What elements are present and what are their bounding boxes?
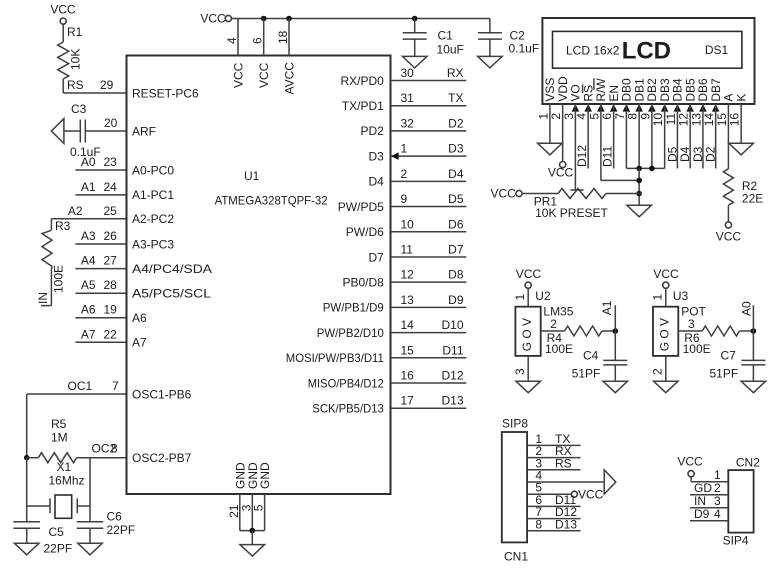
- svg-text:PW/PB1/D9: PW/PB1/D9: [323, 301, 384, 315]
- wire CN2 pin 2 net GD: [690, 481, 728, 495]
- wire net D10 pin 14: [317, 318, 467, 340]
- svg-text:28: 28: [104, 278, 118, 292]
- wire U3 pin 2: [650, 356, 665, 381]
- svg-text:2: 2: [714, 481, 721, 495]
- crystal X1 16Mhz: [49, 460, 91, 518]
- svg-text:8: 8: [111, 442, 118, 456]
- svg-text:CN2: CN2: [736, 455, 760, 469]
- svg-text:D11: D11: [442, 343, 463, 357]
- wire net TX pin 31: [342, 91, 467, 113]
- svg-text:3: 3: [513, 368, 527, 375]
- svg-text:10: 10: [401, 217, 415, 231]
- power VCC: [516, 267, 542, 288]
- capacitor C3: [70, 102, 101, 159]
- svg-text:D3: D3: [368, 149, 384, 163]
- node A1: [600, 300, 618, 334]
- svg-text:C4: C4: [583, 349, 599, 363]
- svg-text:CN1: CN1: [504, 550, 528, 564]
- ground: [14, 543, 39, 555]
- wire net A0 pin 23: [75, 155, 126, 170]
- svg-text:VCC: VCC: [716, 230, 742, 244]
- svg-text:RESET-PC6: RESET-PC6: [132, 86, 199, 100]
- svg-text:22E: 22E: [742, 192, 763, 206]
- resistor R3: [42, 219, 71, 293]
- wire net D12 pin 16: [308, 369, 467, 391]
- svg-text:C2: C2: [510, 29, 526, 43]
- sensor U3 POT body: [650, 288, 706, 356]
- capacitor C6: [77, 510, 135, 544]
- svg-text:1: 1: [513, 294, 527, 301]
- LCD module DS1 body: [542, 18, 754, 104]
- svg-text:R3: R3: [55, 219, 71, 233]
- svg-text:8: 8: [535, 517, 542, 531]
- wire GND pins 21 3 5: [227, 462, 272, 545]
- svg-text:A1: A1: [81, 180, 96, 194]
- svg-text:C5: C5: [49, 525, 65, 539]
- svg-text:22PF: 22PF: [44, 542, 73, 556]
- resistor R2: [723, 169, 763, 222]
- svg-text:11: 11: [401, 242, 414, 256]
- svg-text:D11: D11: [601, 146, 615, 167]
- power VCC: [491, 186, 523, 200]
- wire net D5 pin 11: [665, 104, 679, 168]
- wire CN2 pin 4 net D9: [690, 507, 728, 521]
- svg-text:D12: D12: [441, 369, 463, 383]
- node junction: [24, 455, 30, 461]
- svg-text:D9: D9: [448, 293, 464, 307]
- svg-text:16: 16: [401, 369, 415, 383]
- svg-text:26: 26: [104, 229, 118, 243]
- wire net A1 pin 24: [75, 180, 126, 195]
- svg-text:25: 25: [104, 204, 118, 218]
- svg-text:1: 1: [650, 294, 664, 301]
- wire CN1 pin 8 net D13: [527, 517, 580, 531]
- wire CN2 pin 1 VCC: [691, 468, 728, 482]
- connector CN2 SIP4 body: [723, 455, 761, 547]
- wire net D5 pin 9: [338, 192, 467, 214]
- svg-text:3: 3: [714, 494, 721, 508]
- svg-text:R1: R1: [67, 25, 83, 39]
- LCD pin arrows: [572, 104, 720, 112]
- svg-text:16Mhz: 16Mhz: [49, 474, 85, 488]
- svg-text:LCD: LCD: [622, 38, 671, 65]
- svg-text:A0: A0: [81, 155, 96, 169]
- svg-text:22: 22: [104, 327, 118, 341]
- svg-text:IN: IN: [694, 494, 706, 508]
- wire net D6 pin 10: [346, 217, 467, 239]
- svg-text:ATMEGA328TQPF-32: ATMEGA328TQPF-32: [215, 194, 328, 208]
- svg-text:10K PRESET: 10K PRESET: [535, 206, 608, 220]
- svg-text:22PF: 22PF: [107, 523, 136, 537]
- svg-text:14: 14: [401, 318, 415, 332]
- wire net D4 pin 12: [678, 104, 692, 168]
- svg-text:10K: 10K: [69, 49, 83, 70]
- ground: [240, 545, 264, 557]
- svg-text:RX: RX: [447, 66, 464, 80]
- wire CN1 pin 5 VCC: [527, 481, 604, 502]
- svg-text:GD: GD: [694, 481, 712, 495]
- wire ground bus vertical: [636, 168, 642, 205]
- ground: [538, 143, 563, 155]
- svg-text:OSC2-PB7: OSC2-PB7: [132, 451, 192, 465]
- ground: [516, 381, 541, 393]
- power VCC rail: [200, 12, 490, 26]
- wire pin 18 AVCC: [276, 16, 297, 95]
- svg-text:32: 32: [401, 116, 415, 130]
- svg-text:PW/D6: PW/D6: [346, 225, 384, 239]
- svg-text:OSC1-PB6: OSC1-PB6: [132, 387, 192, 401]
- svg-text:RS: RS: [555, 456, 572, 470]
- wire net A3 pin 26: [75, 229, 126, 244]
- left open-arrow terminal: [51, 119, 64, 144]
- wire U2 pin 3: [513, 356, 528, 381]
- svg-text:LCD 16x2: LCD 16x2: [566, 44, 620, 58]
- svg-text:17: 17: [401, 394, 415, 408]
- svg-text:D6: D6: [448, 217, 464, 231]
- svg-text:A1-PC1: A1-PC1: [132, 188, 174, 202]
- svg-text:A6: A6: [132, 311, 147, 325]
- svg-text:D4: D4: [368, 175, 384, 189]
- wire net A5 pin 28: [75, 278, 126, 293]
- node IN: [36, 270, 51, 306]
- svg-text:PD2: PD2: [360, 124, 384, 138]
- svg-text:51PF: 51PF: [710, 367, 739, 381]
- svg-text:MOSI/PW/PB3/D11: MOSI/PW/PB3/D11: [286, 351, 384, 365]
- power VCC: [653, 267, 679, 288]
- svg-text:7: 7: [112, 379, 119, 393]
- svg-text:A2: A2: [68, 204, 83, 218]
- resistor R4: [541, 317, 616, 356]
- svg-text:IN: IN: [36, 292, 50, 304]
- svg-text:D13: D13: [555, 517, 577, 531]
- svg-text:OC1: OC1: [68, 379, 93, 393]
- svg-text:ARF: ARF: [132, 124, 156, 138]
- wire CN1 pin 1 net TX: [527, 432, 580, 446]
- svg-text:DS1: DS1: [705, 43, 729, 57]
- wire CN2 pin 3 net IN: [690, 494, 728, 508]
- svg-text:A7: A7: [132, 336, 147, 350]
- wire net D3 pin 13: [691, 104, 705, 168]
- svg-text:A5: A5: [81, 278, 96, 292]
- wire net A6 pin 19: [75, 303, 126, 318]
- U1 left pin labels: [132, 86, 212, 465]
- svg-text:G O V: G O V: [520, 318, 534, 351]
- svg-text:A1: A1: [600, 300, 614, 315]
- svg-text:10uF: 10uF: [437, 43, 464, 57]
- svg-text:2: 2: [401, 167, 408, 181]
- svg-text:C7: C7: [721, 349, 737, 363]
- svg-text:29: 29: [100, 78, 114, 92]
- svg-text:TX: TX: [448, 91, 463, 105]
- svg-text:VCC: VCC: [50, 3, 76, 17]
- svg-text:VCC: VCC: [516, 267, 542, 281]
- wire net D12 pin 4: [575, 104, 589, 169]
- svg-text:D10: D10: [441, 318, 463, 332]
- wire OC1 to OSC1-PB6 pin 7: [27, 379, 127, 458]
- potentiometer PR1 10K PRESET: [522, 189, 642, 221]
- svg-text:1: 1: [714, 468, 721, 482]
- svg-text:6: 6: [251, 37, 265, 44]
- connector CN1 SIP8 body: [502, 417, 529, 564]
- svg-text:D3: D3: [448, 142, 464, 156]
- wire ARF pin 20: [64, 116, 127, 131]
- svg-text:D12: D12: [575, 145, 589, 167]
- wire net D13 pin 17: [312, 394, 466, 416]
- svg-text:C3: C3: [71, 102, 87, 116]
- wire LCD pin 5 R/W to ground: [601, 104, 642, 180]
- svg-text:U1: U1: [244, 169, 260, 183]
- svg-text:C1: C1: [438, 29, 454, 43]
- ground: [729, 143, 754, 155]
- svg-text:VCC: VCC: [548, 166, 574, 180]
- svg-text:C6: C6: [107, 510, 123, 524]
- svg-text:A6: A6: [81, 303, 96, 317]
- svg-text:D9: D9: [694, 507, 710, 521]
- power VCC: [548, 162, 574, 180]
- wire net D11 pin 15: [286, 343, 467, 365]
- svg-text:A5/PC5/SCL: A5/PC5/SCL: [132, 287, 211, 301]
- wire CN1 pin 3 net RS: [527, 456, 580, 470]
- svg-text:100E: 100E: [545, 342, 573, 356]
- svg-text:GND: GND: [258, 462, 272, 489]
- svg-text:VCC: VCC: [491, 186, 517, 200]
- ground: [478, 56, 503, 68]
- svg-text:PW/PB2/D10: PW/PB2/D10: [317, 326, 384, 340]
- wire CN1 pin 6 net D11: [527, 493, 580, 507]
- svg-text:VCC: VCC: [653, 267, 679, 281]
- ground: [654, 381, 679, 393]
- capacitor C2: [478, 19, 539, 57]
- svg-text:AVCC: AVCC: [283, 62, 297, 95]
- svg-text:D2: D2: [448, 116, 464, 130]
- svg-text:A4: A4: [81, 254, 96, 268]
- svg-text:4: 4: [714, 507, 721, 521]
- svg-text:D13: D13: [441, 394, 463, 408]
- wire net D3 pin 1: [368, 142, 466, 164]
- svg-text:9: 9: [401, 192, 408, 206]
- svg-text:U3: U3: [673, 289, 689, 303]
- svg-text:VCC: VCC: [257, 62, 271, 88]
- ground: [741, 381, 766, 393]
- wire net A7 pin 22: [75, 327, 126, 342]
- svg-text:VCC: VCC: [578, 488, 604, 502]
- svg-text:20: 20: [104, 116, 118, 130]
- svg-text:R5: R5: [51, 417, 67, 431]
- svg-text:K: K: [734, 94, 748, 102]
- svg-text:SIP8: SIP8: [502, 417, 528, 431]
- svg-text:PW/PD5: PW/PD5: [338, 200, 384, 214]
- capacitor C1: [403, 16, 464, 57]
- svg-text:100E: 100E: [683, 342, 711, 356]
- svg-text:13: 13: [401, 293, 415, 307]
- wire net D8 pin 12: [342, 268, 466, 290]
- ground: [402, 56, 427, 68]
- svg-text:D7: D7: [448, 242, 464, 256]
- svg-text:2: 2: [650, 368, 664, 375]
- wire LCD pin 1 VSS: [549, 104, 551, 143]
- node A0: [739, 301, 756, 334]
- ground: [603, 381, 628, 393]
- capacitor C4: [572, 331, 628, 381]
- svg-text:51PF: 51PF: [572, 367, 601, 381]
- svg-text:D4: D4: [448, 167, 464, 181]
- svg-text:MISO/PB4/D12: MISO/PB4/D12: [308, 376, 384, 390]
- svg-text:A4/PC4/SDA: A4/PC4/SDA: [132, 262, 212, 276]
- svg-text:TX/PD1: TX/PD1: [342, 99, 384, 113]
- wire net D2 pin 14: [704, 104, 718, 168]
- svg-text:RX/PD0: RX/PD0: [340, 74, 384, 88]
- power VCC (R1 pull-up): [50, 3, 76, 25]
- svg-text:4: 4: [225, 37, 239, 44]
- wire net RX pin 30: [340, 66, 466, 88]
- wire RS to RESET-PC6 pin 29: [63, 78, 126, 93]
- wire CN1 pin 4 arrow: [527, 469, 616, 495]
- svg-text:U2: U2: [535, 289, 551, 303]
- wire LCD pin 16 K: [740, 104, 742, 143]
- LCD pin numbers: [536, 113, 741, 127]
- power VCC: [716, 222, 742, 244]
- svg-text:30: 30: [401, 66, 415, 80]
- svg-text:G O V: G O V: [657, 318, 671, 351]
- wire net A2 pin 25: [51, 204, 126, 219]
- svg-text:X1: X1: [57, 460, 72, 474]
- svg-text:D7: D7: [368, 250, 384, 264]
- svg-text:A7: A7: [81, 327, 96, 341]
- wire pin 6 VCC: [251, 16, 272, 88]
- svg-text:D2: D2: [704, 146, 718, 162]
- svg-text:PB0/D8: PB0/D8: [342, 275, 384, 289]
- svg-text:A3: A3: [81, 229, 96, 243]
- wire LCD pin 3 VO wiper: [570, 104, 583, 190]
- svg-text:24: 24: [104, 180, 118, 194]
- wire OC2 to OSC2-PB7 pin 8: [77, 442, 127, 458]
- svg-text:SIP4: SIP4: [723, 534, 749, 548]
- svg-text:1: 1: [401, 142, 408, 156]
- wire right branch: [89, 458, 91, 522]
- svg-text:23: 23: [104, 155, 118, 169]
- wire DB0-DB3 to ground bus: [626, 104, 664, 171]
- sensor U2 LM35 body: [513, 288, 574, 356]
- wire left branch: [27, 458, 50, 522]
- LCD pin names: [543, 76, 748, 102]
- wire net D2 pin 32: [360, 116, 466, 138]
- svg-text:A3-PC3: A3-PC3: [132, 237, 174, 251]
- svg-text:2: 2: [550, 317, 557, 331]
- wire LCD pin 15 A: [727, 104, 729, 169]
- op-amp U1 ATMEGA328TQPF-32 body: [127, 56, 391, 495]
- resistor R6: [678, 317, 753, 356]
- svg-text:D8: D8: [448, 268, 464, 282]
- svg-text:16: 16: [728, 113, 742, 127]
- svg-text:5: 5: [252, 504, 266, 511]
- wire net D9 pin 13: [323, 293, 467, 315]
- svg-text:RS: RS: [67, 78, 84, 92]
- svg-text:3: 3: [688, 317, 695, 331]
- svg-text:31: 31: [401, 91, 415, 105]
- ground: [627, 205, 652, 217]
- svg-text:SCK/PB5/D13: SCK/PB5/D13: [312, 402, 384, 416]
- wire net D4 pin 2: [368, 167, 466, 189]
- svg-text:A0: A0: [739, 301, 753, 316]
- svg-text:100E: 100E: [52, 265, 66, 293]
- wire net A4 pin 27: [75, 254, 126, 269]
- ground: [78, 543, 103, 555]
- svg-text:0.1uF: 0.1uF: [509, 42, 540, 56]
- wire pin 4 VCC: [225, 19, 246, 89]
- svg-text:LM35: LM35: [543, 305, 573, 319]
- svg-text:27: 27: [104, 254, 118, 268]
- svg-text:A0-PC0: A0-PC0: [132, 163, 174, 177]
- wire CN1 pin 7 net D12: [527, 505, 580, 519]
- wire net D11 pin 6: [601, 104, 615, 169]
- svg-text:12: 12: [401, 268, 415, 282]
- capacitor C7: [710, 331, 766, 381]
- power VCC: [677, 454, 703, 477]
- capacitor C5: [13, 522, 72, 556]
- svg-text:D5: D5: [448, 192, 464, 206]
- svg-text:19: 19: [104, 303, 118, 317]
- svg-text:1M: 1M: [51, 431, 68, 445]
- wire CN1 pin 2 net RX: [527, 444, 580, 458]
- resistor R1: [58, 24, 83, 93]
- svg-text:VCC: VCC: [200, 12, 226, 26]
- svg-text:VCC: VCC: [677, 454, 703, 468]
- resistor R5: [27, 417, 77, 463]
- svg-text:A2-PC2: A2-PC2: [132, 212, 174, 226]
- wire LCD pin 2 VDD: [562, 104, 564, 162]
- svg-text:15: 15: [401, 343, 415, 357]
- svg-text:18: 18: [276, 30, 290, 44]
- wire net D7 pin 11: [368, 242, 466, 264]
- svg-text:VCC: VCC: [232, 62, 246, 88]
